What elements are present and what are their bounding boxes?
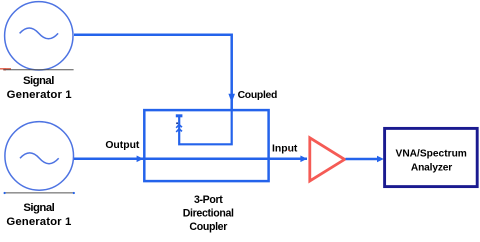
svg-text:Analyzer: Analyzer <box>411 162 452 173</box>
amplifier triangle <box>310 138 345 181</box>
svg-text:Input: Input <box>272 144 298 155</box>
artifact red mark SG1 bottom-left <box>0 68 11 70</box>
label VNA/Spectrum Analyzer <box>396 149 467 174</box>
arrowhead at amplifier input <box>300 156 307 163</box>
svg-text:Generator 1: Generator 1 <box>6 216 72 228</box>
wire SG1 to coupler (coupled port) <box>74 35 232 110</box>
SG2 bottom edge <box>4 192 74 194</box>
label Signal Generator 1 (bottom) <box>6 202 72 228</box>
arrowhead at analyzer <box>377 156 384 163</box>
label Signal Generator 1 (top) <box>7 75 73 101</box>
signal generator SG2 (bottom) body <box>4 119 74 193</box>
label 3-Port Directional Coupler <box>183 194 234 233</box>
coupled line arrow decoration <box>176 114 183 132</box>
VNA/Spectrum Analyzer box <box>385 128 478 186</box>
svg-text:Output: Output <box>105 140 140 151</box>
wire SG2 output to coupler and through line <box>74 158 307 161</box>
svg-text:VNA/Spectrum: VNA/Spectrum <box>396 149 467 160</box>
SG1 bottom edge <box>3 69 73 71</box>
arrowhead at coupler input (left edge) <box>137 156 144 163</box>
svg-text:Signal: Signal <box>23 202 54 214</box>
svg-text:Generator 1: Generator 1 <box>7 89 73 101</box>
signal generator SG1 (top) body <box>3 0 73 70</box>
anchor dot SG2 bottom-right <box>73 192 75 194</box>
svg-text:Coupled: Coupled <box>238 90 277 101</box>
svg-text:Directional: Directional <box>183 208 234 220</box>
svg-text:3-Port: 3-Port <box>194 194 223 206</box>
svg-text:Coupler: Coupler <box>189 221 227 233</box>
coupled line inside coupler <box>179 110 232 144</box>
arrowhead down on coupled wire <box>228 94 235 103</box>
directional coupler box <box>144 110 268 181</box>
artifact red dot in Input <box>288 150 289 151</box>
wire amplifier to analyzer <box>346 158 378 161</box>
anchor dot SG2 bottom-left <box>4 192 6 194</box>
svg-text:Signal: Signal <box>23 75 54 87</box>
